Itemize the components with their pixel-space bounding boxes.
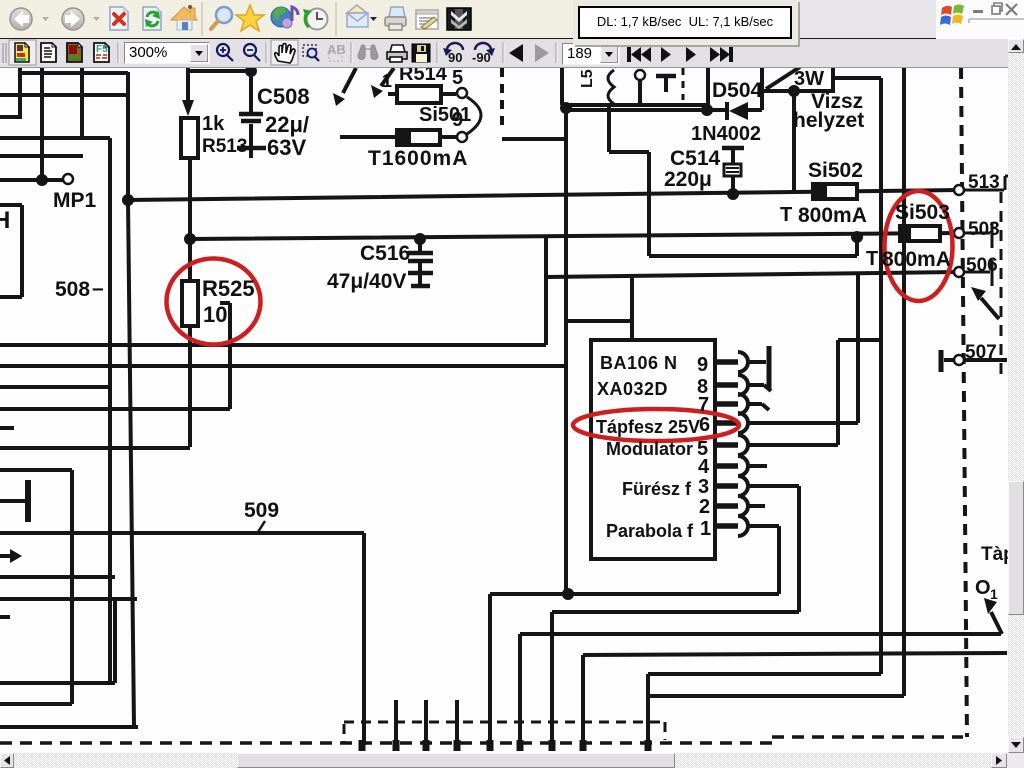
svg-text:Si501: Si501 [419, 104, 471, 126]
svg-text:Parabola f: Parabola f [606, 521, 694, 541]
svg-text:Si502: Si502 [808, 159, 863, 182]
svg-text:1N4002: 1N4002 [691, 123, 761, 145]
svg-text:3W: 3W [794, 68, 824, 90]
svg-text:BA106 N: BA106 N [600, 353, 678, 373]
svg-text:R514: R514 [399, 68, 448, 85]
svg-text:C514: C514 [670, 147, 721, 170]
svg-text:1: 1 [990, 586, 998, 602]
svg-text:9: 9 [697, 354, 708, 376]
svg-text:1: 1 [700, 518, 711, 540]
svg-text:Si503: Si503 [895, 201, 950, 224]
svg-text:C516: C516 [360, 242, 410, 265]
svg-text:–: – [92, 277, 104, 300]
svg-text:-90: -90 [472, 50, 491, 65]
svg-text:22μ/: 22μ/ [265, 112, 309, 137]
svg-text:7: 7 [698, 394, 709, 416]
svg-text:63V: 63V [267, 135, 306, 160]
svg-text:helyzet: helyzet [793, 109, 864, 132]
svg-text:5: 5 [452, 68, 463, 89]
svg-text:C508: C508 [257, 84, 310, 109]
svg-text:L5: L5 [579, 69, 596, 88]
svg-text:47μ/40V: 47μ/40V [327, 270, 406, 293]
svg-text:Fürész f: Fürész f [622, 479, 692, 499]
svg-text:R513: R513 [202, 136, 247, 157]
svg-text:506: 506 [966, 255, 998, 276]
svg-text:R525: R525 [202, 276, 255, 301]
svg-text:Tàp: Tàp [981, 544, 1008, 565]
svg-text:509: 509 [244, 499, 279, 522]
svg-text:T: T [866, 248, 878, 270]
svg-text:D504: D504 [712, 79, 763, 102]
svg-text:T1600mA: T1600mA [368, 147, 468, 170]
svg-text:F5: F5 [96, 44, 108, 55]
svg-text:Modulator: Modulator [606, 439, 693, 459]
svg-text:6: 6 [699, 414, 710, 436]
svg-text:507: 507 [965, 342, 997, 363]
svg-text:XA032D: XA032D [597, 379, 668, 399]
svg-text:H: H [0, 207, 10, 234]
svg-text:513: 513 [968, 172, 1000, 193]
svg-text:90: 90 [448, 50, 462, 65]
svg-text:AB: AB [327, 42, 346, 57]
svg-text:1k: 1k [202, 113, 225, 135]
svg-text:503: 503 [968, 219, 1000, 240]
svg-text:T: T [780, 204, 792, 226]
svg-text:1: 1 [382, 71, 392, 91]
svg-text:508: 508 [55, 278, 90, 301]
svg-text:220μ: 220μ [664, 168, 712, 191]
svg-text:800mA: 800mA [882, 248, 951, 271]
svg-text:10: 10 [203, 302, 227, 327]
svg-text:2: 2 [699, 496, 710, 518]
svg-text:3: 3 [698, 476, 709, 498]
svg-text:800mA: 800mA [798, 204, 867, 227]
svg-text:4: 4 [698, 456, 710, 478]
svg-text:Tápfesz 25V: Tápfesz 25V [596, 417, 700, 437]
svg-text:MP1: MP1 [53, 189, 97, 212]
svg-text:O: O [975, 577, 991, 599]
svg-text:9: 9 [452, 109, 463, 131]
